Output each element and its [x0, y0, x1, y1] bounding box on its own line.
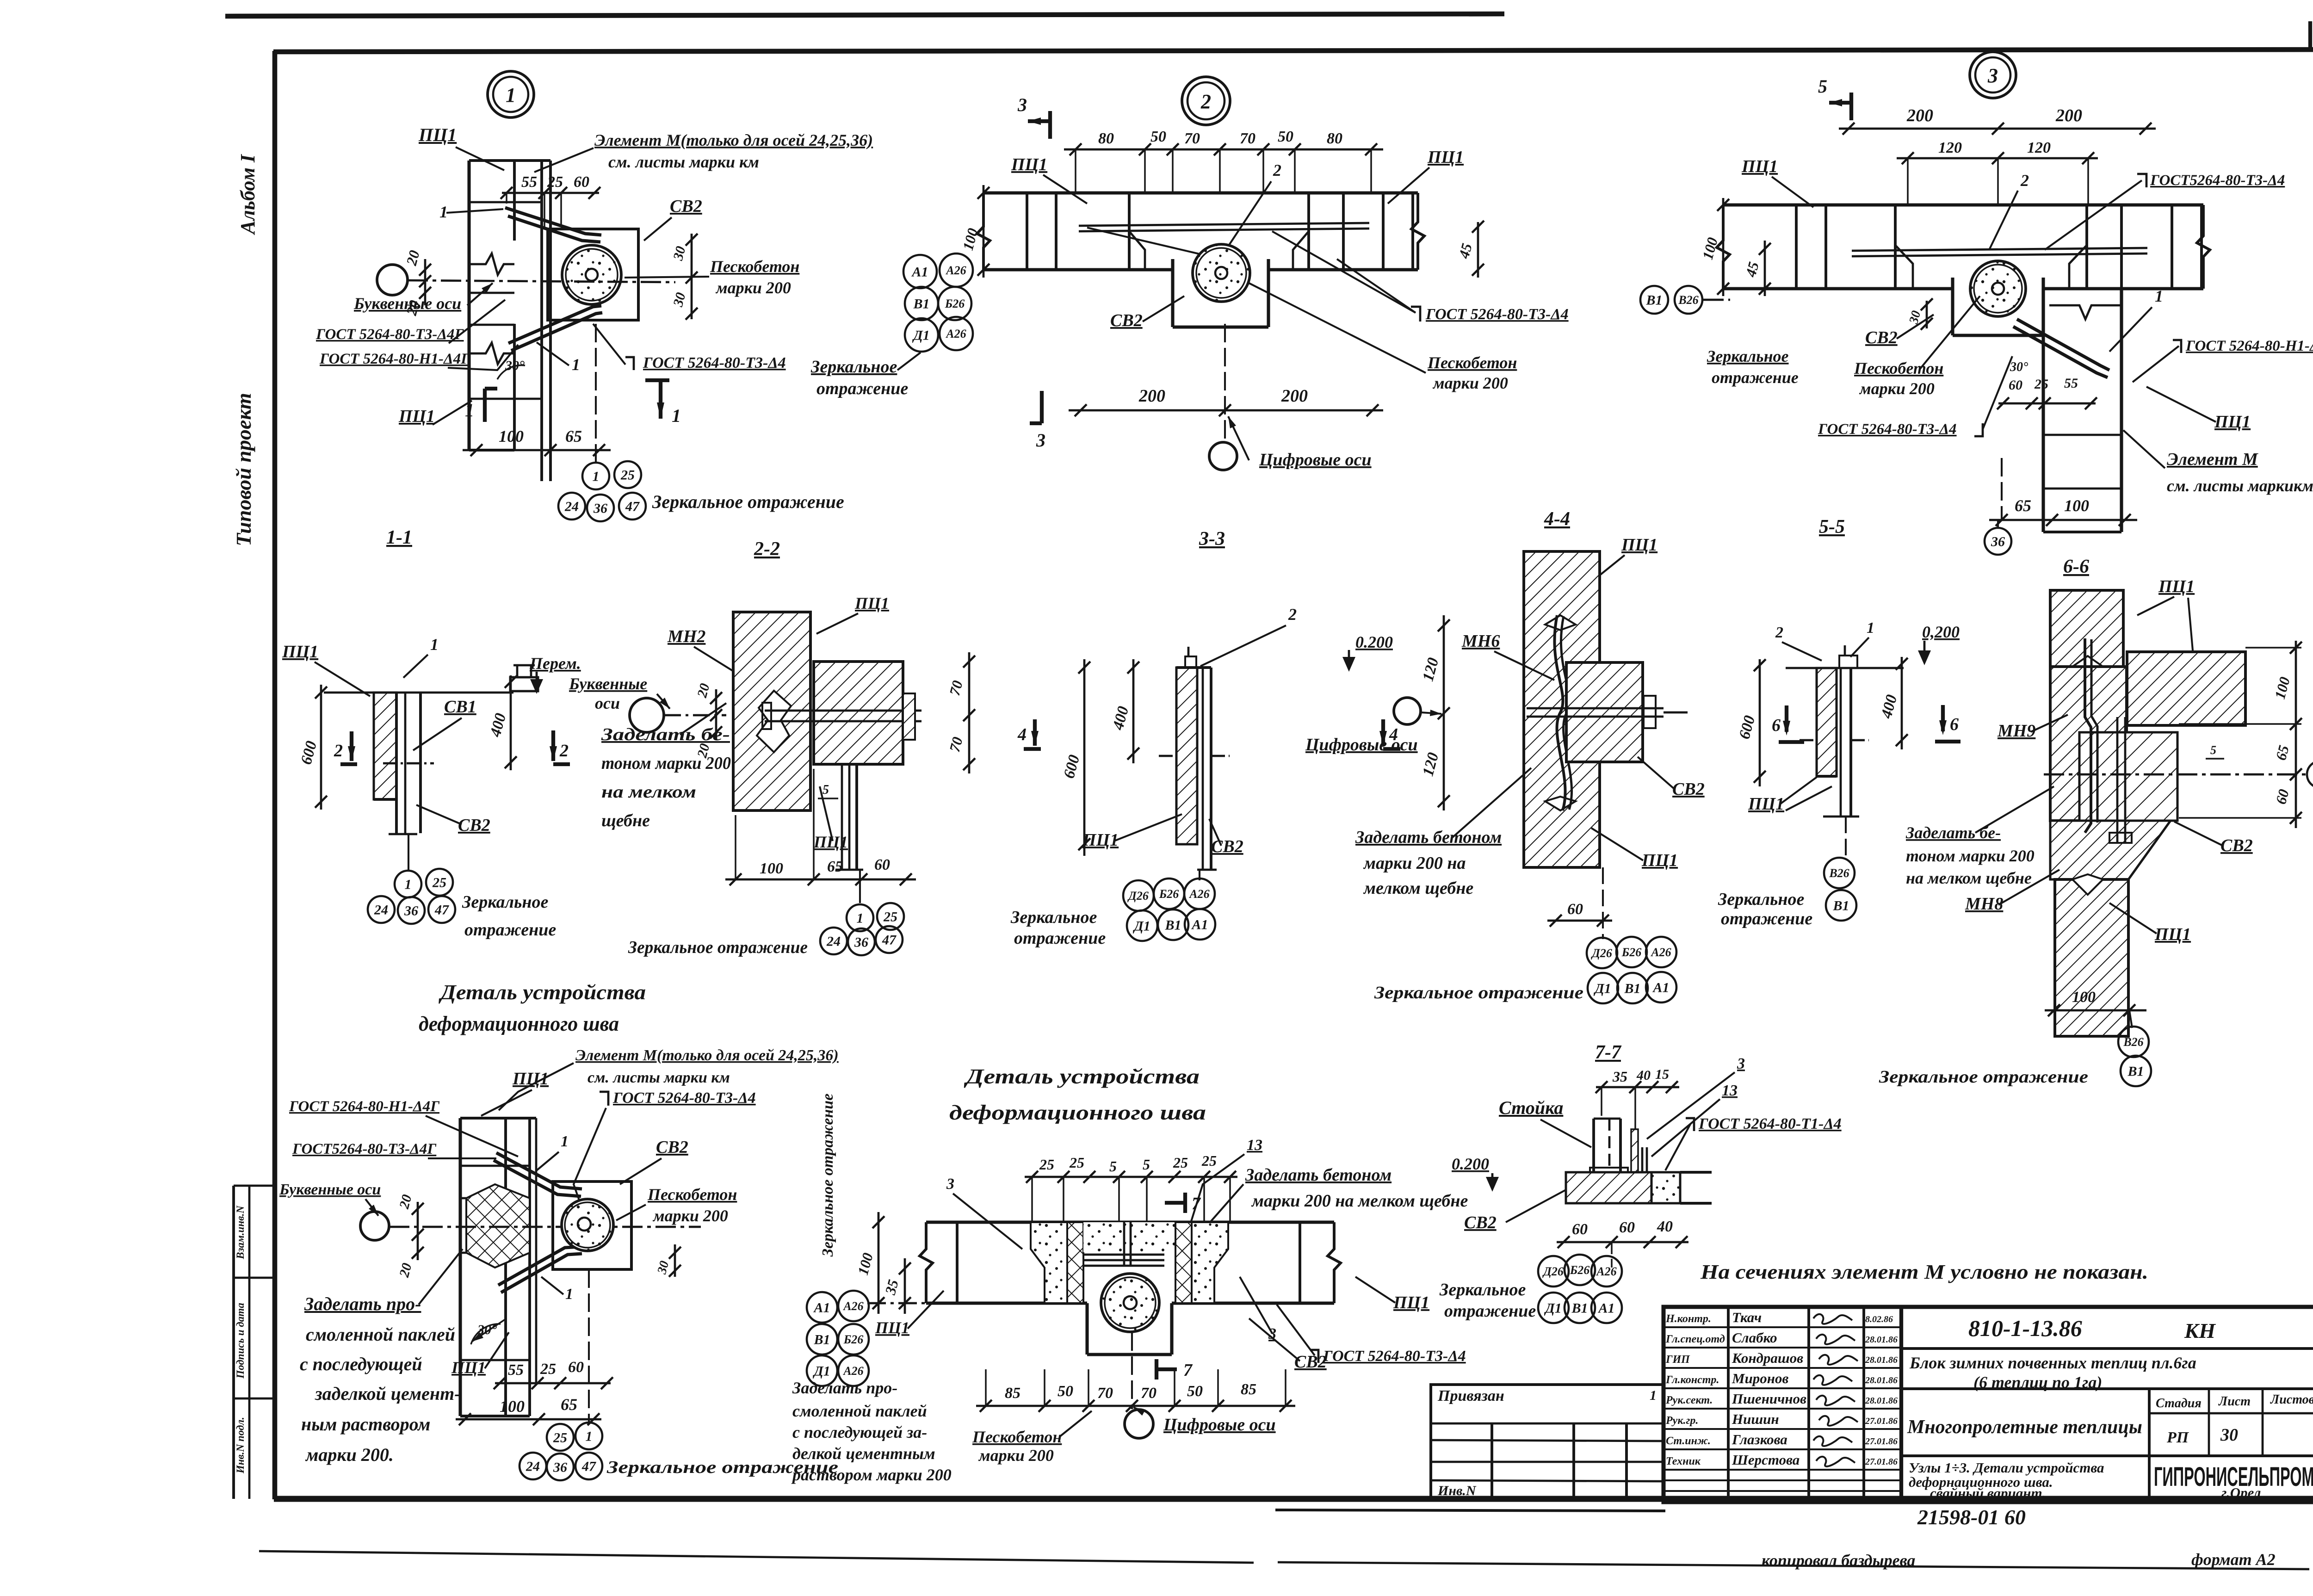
svg-text:формат А2: формат А2 [2191, 1550, 2276, 1569]
svg-text:28.01.86: 28.01.86 [1865, 1396, 1898, 1406]
svg-text:отражение: отражение [1712, 368, 1799, 387]
svg-text:24: 24 [564, 499, 579, 514]
title block stage grid [2148, 1389, 2151, 1502]
svg-text:Зеркальное: Зеркальное [462, 892, 548, 912]
dim 100 left node2 [983, 185, 985, 278]
svg-text:3: 3 [1036, 430, 1045, 451]
svg-text:1: 1 [572, 355, 580, 374]
axis dashdot node3 [1703, 299, 1730, 301]
sec6-6 axis dashdot to bubble [2044, 773, 2306, 776]
dim 55 25 60 [502, 192, 599, 194]
svg-text:В26: В26 [1678, 293, 1698, 307]
sec1-1 top edge line [324, 692, 513, 694]
bl pile circle [562, 1199, 613, 1251]
svg-text:В1: В1 [2127, 1064, 2144, 1079]
svg-text:1: 1 [430, 635, 439, 654]
svg-text:25: 25 [547, 173, 563, 191]
sec5-5 top edge [1786, 667, 1904, 669]
svg-text:5-5: 5-5 [1819, 516, 1845, 538]
svg-text:Буквенные: Буквенные [569, 674, 647, 693]
svg-text:СВ2: СВ2 [1211, 837, 1243, 856]
bm beam [926, 1220, 1334, 1224]
svg-text:Д1: Д1 [1544, 1301, 1562, 1316]
svg-text:В1: В1 [1624, 981, 1640, 996]
svg-text:На сечениях элемент М усл: На сечениях элемент М условно не показан… [1700, 1261, 2148, 1283]
bm flag 7 top [1165, 1201, 1185, 1205]
svg-text:см. листы марки км: см. листы марки км [608, 153, 759, 171]
svg-text:А1: А1 [1652, 980, 1669, 996]
pile circle node3 [1970, 261, 2026, 316]
svg-text:МН6: МН6 [1461, 631, 1500, 651]
sec2-2 right block CB2 [814, 662, 903, 764]
svg-text:0.200: 0.200 [1355, 633, 1393, 651]
svg-text:Д26: Д26 [1127, 889, 1149, 903]
axis drop line [595, 324, 597, 463]
svg-text:25: 25 [1201, 1152, 1217, 1169]
svg-text:60: 60 [1567, 901, 1583, 918]
svg-text:28.01.86: 28.01.86 [1865, 1355, 1898, 1365]
svg-text:120: 120 [1938, 139, 1962, 156]
bottom scan line left [259, 1551, 1254, 1563]
svg-text:100: 100 [499, 427, 524, 445]
bm dim 100 left [878, 1212, 880, 1314]
svg-text:Зеркальное отражение: Зеркальное отражение [1374, 983, 1583, 1002]
svg-text:25: 25 [2034, 377, 2048, 392]
sec1-1 axis drop [408, 834, 409, 870]
sec2-2 star void [757, 691, 791, 752]
axis bubbles bottom left cluster [807, 1292, 837, 1323]
svg-text:70: 70 [1141, 1385, 1156, 1402]
dim 200 200 node2 [1069, 409, 1383, 412]
svg-text:заделкой цемент-: заделкой цемент- [315, 1383, 461, 1404]
bm central concrete top [1083, 1222, 1175, 1252]
svg-text:15: 15 [1655, 1067, 1669, 1082]
svg-text:5: 5 [1143, 1156, 1150, 1173]
sec1-1 bolt [510, 677, 538, 691]
svg-text:МН8: МН8 [1965, 894, 2003, 914]
bl dim 100 65 [456, 1418, 601, 1421]
svg-text:40: 40 [1657, 1218, 1673, 1235]
svg-text:Пескобетон: Пескобетон [1854, 359, 1943, 377]
svg-text:ПЦ1: ПЦ1 [1748, 794, 1784, 814]
svg-text:Цифровые оси: Цифровые оси [1305, 735, 1418, 755]
svg-text:Заделать про-: Заделать про- [304, 1293, 421, 1314]
svg-text:1: 1 [1650, 1388, 1657, 1403]
sec3-3 axis mark [1159, 755, 1176, 757]
svg-text:47: 47 [434, 903, 449, 918]
svg-text:отражение: отражение [464, 920, 556, 940]
sec2-2 bubbles 1 25 [847, 904, 873, 931]
sec2-2 bolt assembly [765, 710, 921, 712]
svg-text:СВ2: СВ2 [1464, 1213, 1497, 1232]
svg-text:СВ2: СВ2 [1672, 779, 1705, 799]
sec7-7 bubbles [1538, 1256, 1569, 1287]
axis bubbles A1 A26 [903, 255, 937, 288]
svg-text:7-7: 7-7 [1595, 1042, 1622, 1063]
svg-text:ПЦ1: ПЦ1 [398, 407, 435, 426]
sec2-2 axis drop [859, 870, 861, 903]
sec7-7 dim 60 60 40 [1557, 1241, 1688, 1243]
svg-text:Буквенные оси: Буквенные оси [279, 1181, 381, 1198]
svg-text:Деталь устройства: Деталь устройства [964, 1064, 1200, 1088]
svg-text:3: 3 [1987, 64, 1998, 87]
bottom scan line right [1278, 1562, 2309, 1569]
svg-text:Д1: Д1 [912, 328, 930, 343]
line under privyazan table [1275, 1510, 1665, 1511]
bl bubbles [547, 1424, 574, 1451]
bl axis drop [588, 1269, 590, 1423]
svg-text:Техник: Техник [1666, 1455, 1701, 1467]
svg-text:ГОСТ 5264-80-Т3-Δ4: ГОСТ 5264-80-Т3-Δ4 [1425, 306, 1569, 323]
svg-text:13: 13 [1247, 1137, 1262, 1154]
bm crosshatch seal left [1067, 1222, 1083, 1303]
svg-text:ГОСТ 5264-80-Т3-Δ4: ГОСТ 5264-80-Т3-Δ4 [1323, 1348, 1466, 1365]
svg-text:деформационного шва: деформационного шва [949, 1101, 1206, 1124]
svg-text:Б26: Б26 [1570, 1263, 1590, 1277]
privyazan table [1431, 1385, 1664, 1500]
svg-text:Заделать про-: Заделать про- [792, 1379, 897, 1397]
sec4-4 hatched column [1524, 551, 1600, 867]
svg-text:8.02.86: 8.02.86 [1865, 1314, 1893, 1324]
sec2-2 big hatched column [733, 612, 810, 810]
svg-text:47: 47 [581, 1459, 596, 1474]
svg-text:Б26: Б26 [1621, 946, 1642, 959]
sec3-3 dim 400 [1132, 659, 1135, 763]
tsifrovye osi circle node2 [1209, 442, 1237, 470]
svg-text:ГОСТ 5264-80-Т3-Δ4Г: ГОСТ 5264-80-Т3-Δ4Г [315, 326, 464, 343]
svg-text:г.Орел: г.Орел [2221, 1485, 2261, 1501]
svg-text:Ст.инж.: Ст.инж. [1666, 1435, 1711, 1447]
right wall column node3 [2041, 289, 2045, 532]
svg-text:2: 2 [334, 741, 343, 761]
svg-text:Пескобетон: Пескобетон [972, 1428, 1062, 1446]
bl upper hook [496, 1153, 582, 1189]
sec5-5 flag 6 right [1941, 705, 1945, 731]
svg-text:1: 1 [672, 405, 681, 426]
svg-text:3-3: 3-3 [1199, 528, 1225, 550]
dim 30 30 right of cap [691, 234, 693, 319]
page number box tick [2308, 21, 2312, 51]
svg-text:2-2: 2-2 [754, 538, 780, 560]
svg-text:ПЦ1: ПЦ1 [1082, 830, 1119, 850]
svg-text:А1: А1 [911, 265, 928, 280]
svg-text:30°: 30° [2010, 360, 2028, 374]
svg-text:85: 85 [1005, 1385, 1020, 1402]
svg-text:3: 3 [946, 1175, 954, 1193]
sec1-1 hatched wall [374, 693, 396, 799]
sec6-6 bent plate MH9 [2085, 638, 2091, 833]
svg-text:Зеркальное отражение: Зеркальное отражение [652, 491, 844, 512]
svg-text:см. листы маркикм: см. листы маркикм [2167, 476, 2313, 495]
svg-text:ным раствором: ным раствором [301, 1414, 430, 1435]
svg-text:200: 200 [1281, 386, 1308, 406]
svg-text:Д26: Д26 [1542, 1265, 1564, 1278]
svg-text:25: 25 [1039, 1156, 1054, 1173]
svg-text:Д26: Д26 [1591, 946, 1612, 960]
svg-text:копировал баздырева: копировал баздырева [1762, 1551, 1915, 1570]
frame left edge [272, 51, 278, 1499]
sec5-5 axis mark [1800, 739, 1817, 742]
dim 100 left node3 [1722, 198, 1725, 296]
sec5-5 axis drop [1845, 817, 1847, 860]
upper hook plate [505, 208, 601, 235]
svg-text:смоленной паклей: смоленной паклей [306, 1324, 455, 1345]
svg-text:В1: В1 [913, 297, 929, 312]
bm dim row 85 50 70 70 50 85 [976, 1405, 1295, 1407]
dim 20 20 left [424, 259, 427, 305]
svg-text:марки 200: марки 200 [652, 1206, 728, 1225]
svg-text:Зеркальное: Зеркальное [1439, 1280, 1526, 1299]
svg-text:А26: А26 [1188, 887, 1209, 901]
svg-text:55: 55 [2064, 376, 2078, 391]
svg-text:тоном марки 200: тоном марки 200 [601, 754, 731, 773]
svg-text:60: 60 [1619, 1219, 1635, 1236]
svg-text:65: 65 [827, 858, 843, 875]
svg-text:50: 50 [1187, 1383, 1203, 1400]
svg-text:85: 85 [1241, 1381, 1256, 1398]
svg-text:ГОСТ 5264-80-Т3-Δ4: ГОСТ 5264-80-Т3-Δ4 [643, 354, 786, 371]
svg-text:ГОСТ 5264-80-Н1-Δ4Г: ГОСТ 5264-80-Н1-Δ4Г [289, 1098, 440, 1115]
svg-text:25: 25 [620, 468, 635, 483]
sec6-6 bubbles B26 B1 bottom [2129, 1010, 2132, 1028]
svg-text:ПЦ1: ПЦ1 [1427, 148, 1464, 167]
svg-text:ГОСТ5264-80-Т3-Δ4Г: ГОСТ5264-80-Т3-Δ4Г [292, 1141, 437, 1157]
svg-text:делкой цементным: делкой цементным [792, 1444, 935, 1463]
svg-text:25: 25 [883, 909, 897, 925]
sec6-6 dim 100 bottom [2045, 1009, 2146, 1012]
svg-text:ГОСТ 5264-80-Н1-Δ4Г: ГОСТ 5264-80-Н1-Δ4Г [319, 351, 470, 367]
svg-text:ГОСТ 5264-80-Н1-Δ4: ГОСТ 5264-80-Н1-Δ4 [2185, 338, 2313, 354]
sec6-6 top notch [2072, 656, 2103, 672]
hook into column node3 [2017, 319, 2109, 370]
svg-text:Зеркальное: Зеркальное [810, 357, 897, 377]
title block outer [1664, 1307, 2313, 1502]
taper joints [1129, 193, 1145, 270]
tie plates node2 [1079, 223, 1369, 226]
svg-text:Пшеничнов: Пшеничнов [1732, 1391, 1806, 1407]
bm flag 7 bottom [1156, 1367, 1177, 1371]
svg-text:2: 2 [2020, 171, 2029, 190]
svg-text:СВ2: СВ2 [1865, 328, 1898, 347]
svg-text:65: 65 [561, 1395, 577, 1414]
sec6-6 right dims [2295, 641, 2297, 828]
dim 65 100 node3 [1989, 519, 2137, 521]
svg-text:2: 2 [1775, 624, 1783, 641]
svg-text:25: 25 [1173, 1154, 1188, 1171]
svg-text:отражение: отражение [1721, 909, 1812, 928]
bl dim 55 25 60 [495, 1382, 611, 1385]
bubble 36 node3 [1985, 528, 2011, 555]
svg-text:Слабко: Слабко [1732, 1330, 1777, 1346]
svg-text:Гл.констр.: Гл.констр. [1665, 1374, 1719, 1386]
svg-text:47: 47 [882, 933, 897, 948]
svg-text:с последующей за-: с последующей за- [792, 1423, 927, 1441]
sec1-1 pile strips [395, 693, 398, 833]
bm pile circle [1101, 1274, 1159, 1332]
pile circle with concrete fill [562, 245, 621, 304]
sec1-1 axis cross [383, 762, 434, 765]
svg-text:70: 70 [1097, 1385, 1113, 1402]
sec5-5 bubbles [1824, 858, 1855, 888]
svg-text:В1: В1 [1571, 1301, 1588, 1316]
sec6-6 bottom column [2055, 879, 2128, 1036]
svg-text:60: 60 [568, 1359, 584, 1376]
dim 200 200 node3 [1839, 128, 2156, 130]
svg-text:Ткач: Ткач [1732, 1309, 1762, 1325]
svg-text:70: 70 [1184, 130, 1200, 147]
svg-text:7: 7 [1192, 1194, 1201, 1213]
svg-text:0.200: 0.200 [1452, 1155, 1489, 1173]
svg-text:21598-01 60: 21598-01 60 [1917, 1505, 2026, 1529]
svg-text:марки 200: марки 200 [715, 278, 791, 297]
section flag 3 bottom [1040, 391, 1044, 423]
svg-text:60: 60 [2009, 377, 2022, 393]
svg-text:Листов: Листов [2270, 1392, 2313, 1407]
bm beam breaks [920, 1222, 933, 1303]
sec1-1 bubbles [395, 871, 421, 897]
sec2-2 dim 20 20 [715, 689, 717, 740]
bl dim 30 right [674, 1244, 676, 1277]
svg-text:100: 100 [2064, 496, 2089, 515]
svg-text:ПЦ1: ПЦ1 [2214, 412, 2251, 432]
sec3-3 axis drop [1199, 870, 1200, 880]
svg-text:МН9: МН9 [1997, 721, 2035, 741]
svg-text:Взам.инв.N: Взам.инв.N [235, 1205, 246, 1260]
sec4-4 dim 120 120 [1443, 615, 1445, 810]
svg-text:36: 36 [593, 501, 607, 516]
beam right break [1411, 193, 1424, 270]
svg-text:25: 25 [553, 1430, 567, 1446]
svg-text:(6 теплиц по 1га): (6 теплиц по 1га) [1973, 1373, 2102, 1392]
beam left break [977, 193, 990, 270]
bm concrete stipple left [1031, 1222, 1067, 1303]
svg-text:А26: А26 [842, 1364, 863, 1378]
svg-text:ПЦ1: ПЦ1 [282, 642, 318, 662]
bl axis dashdot [389, 1226, 701, 1228]
svg-text:0,200: 0,200 [1922, 623, 1960, 641]
title block right: theme cell [1901, 1454, 2149, 1457]
bm T plates [1083, 1254, 1164, 1256]
dim 100 65 node1 [463, 449, 611, 452]
svg-text:ГИП: ГИП [1665, 1354, 1690, 1366]
svg-text:ПЦ1: ПЦ1 [1641, 851, 1678, 870]
svg-text:24: 24 [374, 903, 388, 918]
svg-text:В1: В1 [1645, 293, 1662, 308]
svg-text:А26: А26 [1596, 1265, 1616, 1278]
svg-text:отражение: отражение [1444, 1301, 1536, 1321]
svg-text:6: 6 [1772, 716, 1781, 735]
svg-text:ГОСТ 5264-80-Т3-Δ4: ГОСТ 5264-80-Т3-Δ4 [1818, 421, 1957, 438]
svg-text:25: 25 [1069, 1154, 1084, 1171]
svg-text:60: 60 [874, 856, 890, 873]
svg-text:Пескобетон: Пескобетон [710, 257, 799, 276]
svg-text:СВ2: СВ2 [2220, 836, 2253, 855]
svg-text:65: 65 [565, 427, 582, 445]
sec1-1 dim 600 [320, 685, 322, 810]
svg-text:Н.контр.: Н.контр. [1665, 1313, 1711, 1325]
bl wall horiz lines [460, 1197, 466, 1200]
section flag 1 left bottom [483, 389, 487, 422]
sec2-2 dim 70 70 right [968, 652, 971, 773]
svg-text:Многопролетные теплицы: Многопролетные теплицы [1907, 1417, 2142, 1438]
svg-text:А26: А26 [945, 327, 966, 340]
svg-text:Шерстова: Шерстова [1732, 1452, 1800, 1468]
svg-text:Перем.: Перем. [529, 654, 581, 673]
svg-text:5: 5 [2210, 743, 2216, 757]
pile cap node3 [1951, 278, 1954, 335]
svg-text:Зеркальное: Зеркальное [1718, 890, 1804, 909]
sec4-4 bent plate MH6 [1554, 615, 1565, 810]
svg-text:100: 100 [760, 860, 783, 877]
svg-text:60: 60 [574, 173, 589, 191]
sec6-6 bolt vertical [2116, 717, 2119, 842]
sec1-1 flag 2 right [551, 730, 555, 761]
axis bubbles B1 B26 node3 [1640, 286, 1668, 314]
svg-text:Узлы 1÷3. Детали устройства: Узлы 1÷3. Детали устройства [1909, 1460, 2104, 1476]
sec1-1 flag 2 left [350, 731, 353, 761]
svg-text:Цифровые оси: Цифровые оси [1163, 1415, 1276, 1435]
svg-text:Лист: Лист [2218, 1394, 2251, 1409]
svg-text:Миронов: Миронов [1732, 1370, 1789, 1386]
svg-text:65: 65 [2015, 496, 2031, 515]
lower hook plate [508, 306, 601, 343]
svg-text:марки 200 на мелком щебне: марки 200 на мелком щебне [1251, 1191, 1468, 1211]
svg-text:Б26: Б26 [843, 1333, 864, 1346]
bm beam joints [956, 1222, 959, 1303]
svg-text:35: 35 [1612, 1068, 1627, 1085]
svg-text:200: 200 [2055, 106, 2082, 125]
svg-text:Кондрашов: Кондрашов [1732, 1350, 1803, 1366]
svg-text:см. листы марки км: см. листы марки км [588, 1069, 730, 1086]
svg-text:4-4: 4-4 [1544, 508, 1570, 530]
axis bubbles D1 A26 [905, 318, 938, 352]
svg-text:Рук.гр.: Рук.гр. [1665, 1415, 1698, 1427]
svg-text:марки 200.: марки 200. [305, 1444, 394, 1465]
svg-text:ПЦ1: ПЦ1 [1393, 1293, 1429, 1312]
svg-text:1: 1 [565, 1286, 573, 1303]
sec7-7 base plate [1590, 1168, 1628, 1172]
beam node3 [1723, 203, 2203, 206]
svg-text:5: 5 [1109, 1158, 1117, 1175]
sec5-5 wall hatched [1817, 668, 1837, 776]
title block verticals left grid [1727, 1307, 1730, 1502]
svg-text:Пескобетон: Пескобетон [647, 1185, 737, 1204]
sec5-5 dim 600 [1759, 659, 1761, 786]
svg-text:Элемент М(только для осей 24,2: Элемент М(только для осей 24,25,36) [575, 1047, 839, 1064]
svg-text:ГОСТ5264-80-Т3-Δ4: ГОСТ5264-80-Т3-Δ4 [2150, 172, 2285, 189]
bm axis drop [1131, 1332, 1133, 1409]
sec1-1 dim 400 [510, 675, 512, 770]
svg-text:27.01.86: 27.01.86 [1865, 1436, 1898, 1447]
sec7-7 foundation [1566, 1172, 1651, 1203]
svg-text:80: 80 [1327, 130, 1342, 147]
bubbles node1 [582, 463, 609, 489]
leader element M [534, 148, 594, 172]
svg-text:6-6: 6-6 [2063, 556, 2089, 577]
svg-text:раствором марки 200: раствором марки 200 [791, 1466, 952, 1484]
pile cap node2 [1171, 259, 1174, 327]
svg-text:СВ1: СВ1 [444, 697, 476, 717]
svg-text:1-1: 1-1 [386, 527, 412, 548]
svg-text:В1: В1 [813, 1332, 830, 1348]
svg-text:25: 25 [540, 1361, 556, 1378]
sec5-5 dim 400 [1901, 657, 1903, 749]
svg-text:Нишин: Нишин [1732, 1411, 1779, 1427]
sec3-3 dim 600 [1083, 659, 1086, 856]
svg-text:ПЦ1: ПЦ1 [2154, 925, 2191, 944]
svg-text:А1: А1 [813, 1300, 830, 1316]
svg-text:Стадия: Стадия [2156, 1396, 2202, 1410]
